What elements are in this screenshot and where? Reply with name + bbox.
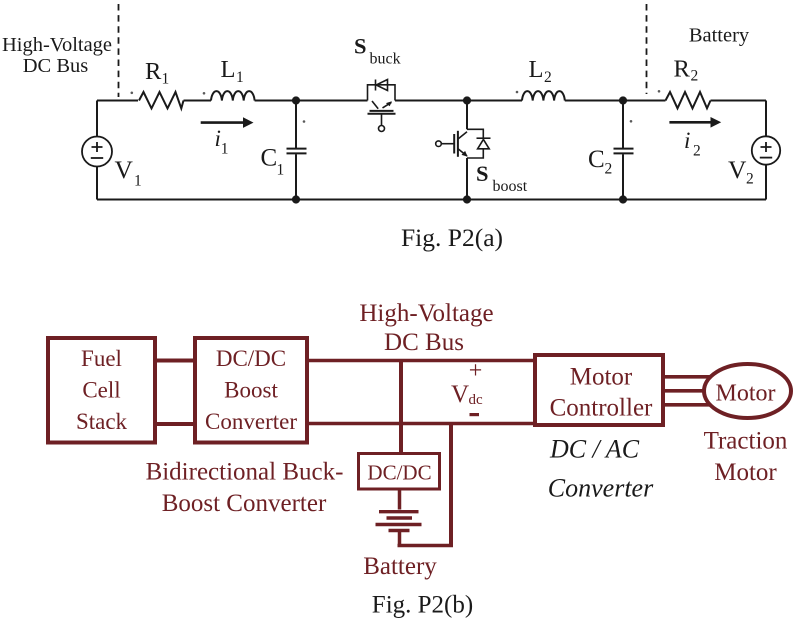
svg-text:V: V xyxy=(115,155,134,184)
svg-text:Battery: Battery xyxy=(689,25,750,47)
label S_boost xyxy=(476,161,528,195)
block Fuel Cell Stack xyxy=(48,338,155,443)
svg-text:boost: boost xyxy=(493,178,528,195)
svg-text:Converter: Converter xyxy=(548,474,654,503)
svg-text:2: 2 xyxy=(693,143,701,160)
svg-text:Cell: Cell xyxy=(82,378,120,403)
label minus xyxy=(470,413,480,416)
label V2 xyxy=(728,155,754,188)
svg-text:Converter: Converter xyxy=(205,409,297,434)
wire DC bus top xyxy=(305,359,537,363)
node C1 top xyxy=(292,96,300,104)
wire S_boost branch xyxy=(466,101,468,200)
battery symbol xyxy=(376,512,422,531)
caption Fig. P2(b) xyxy=(372,592,473,619)
svg-text:DC/DC: DC/DC xyxy=(216,346,286,371)
node C2 bottom xyxy=(619,195,627,203)
label Traction Motor xyxy=(704,428,788,487)
label High-Voltage DC Bus (fig a) xyxy=(2,34,112,77)
svg-text:R: R xyxy=(674,56,691,83)
block DC/DC Boost Converter xyxy=(195,338,307,443)
label L1 xyxy=(221,56,244,86)
svg-text:1: 1 xyxy=(221,141,229,158)
svg-text:C: C xyxy=(261,145,278,172)
capacitor C2 xyxy=(614,149,634,154)
svg-text:High-Voltage: High-Voltage xyxy=(359,300,493,327)
dashed bus boundary left xyxy=(118,4,120,97)
wire C2 branch xyxy=(622,101,624,200)
svg-text:1: 1 xyxy=(277,162,285,179)
label R1 xyxy=(145,58,169,88)
svg-text:Motor: Motor xyxy=(570,364,633,391)
svg-text:Stack: Stack xyxy=(76,409,128,434)
wire phase C xyxy=(665,403,711,407)
dashed bus boundary right xyxy=(646,4,648,94)
svg-text:Battery: Battery xyxy=(363,553,437,580)
svg-text:R: R xyxy=(145,58,162,85)
label V1 xyxy=(115,155,142,189)
svg-text:Boost: Boost xyxy=(224,378,278,403)
resistor R2 xyxy=(666,92,711,108)
svg-text:Controller: Controller xyxy=(550,395,653,422)
svg-text:Fuel: Fuel xyxy=(81,346,122,371)
svg-text:S: S xyxy=(476,161,489,186)
wire battery stem bottom xyxy=(398,532,402,547)
svg-text:Bidirectional Buck-: Bidirectional Buck- xyxy=(146,459,344,486)
svg-text:DC/DC: DC/DC xyxy=(367,461,431,485)
wire DC/DC to battery xyxy=(398,488,402,510)
label Battery (fig a) xyxy=(689,25,750,47)
inductor L1 xyxy=(211,91,255,100)
svg-text:1: 1 xyxy=(236,69,244,86)
wire top rail segments xyxy=(97,100,766,102)
caption Fig. P2(a) xyxy=(401,223,503,252)
wire right rail xyxy=(765,101,767,200)
label Vdc xyxy=(451,381,483,408)
wire fuel-cell to boost lower xyxy=(153,422,197,426)
label Battery (fig b) xyxy=(363,553,437,580)
svg-text:L: L xyxy=(529,56,544,83)
svg-text:2: 2 xyxy=(691,68,699,85)
svg-text:C: C xyxy=(588,146,605,173)
svg-text:1: 1 xyxy=(134,172,142,189)
node S_boost bottom xyxy=(463,195,471,203)
wire DC bus bottom xyxy=(305,422,537,426)
label S_buck xyxy=(354,34,401,68)
svg-text:i: i xyxy=(684,128,690,153)
voltage source V1 xyxy=(82,137,112,167)
label C1 xyxy=(261,145,285,179)
label L2 xyxy=(529,56,552,86)
svg-text:V: V xyxy=(728,155,747,184)
switch S_buck IGBT with diode xyxy=(368,80,396,132)
svg-text:+: + xyxy=(469,358,483,384)
svg-text:Motor: Motor xyxy=(716,381,776,407)
svg-text:dc: dc xyxy=(469,392,484,408)
switch S_boost IGBT with diode xyxy=(436,129,491,158)
wire bottom rail xyxy=(97,199,766,201)
voltage source V2 xyxy=(752,136,780,164)
resistor R1 xyxy=(139,92,184,108)
svg-text:1: 1 xyxy=(162,71,170,88)
label DC / AC Converter xyxy=(548,435,654,503)
construction dots xyxy=(131,90,661,123)
node S_boost top xyxy=(463,96,471,104)
svg-text:High-Voltage: High-Voltage xyxy=(2,34,112,56)
svg-text:2: 2 xyxy=(605,161,613,178)
wire C1 branch xyxy=(295,101,297,200)
wire phase A xyxy=(665,375,711,379)
svg-text:2: 2 xyxy=(544,69,552,86)
capacitor C1 xyxy=(287,149,307,154)
block Motor Controller xyxy=(535,355,663,425)
block Motor (ellipse) xyxy=(704,364,791,418)
block DC/DC (battery converter) xyxy=(359,454,440,490)
label i1 xyxy=(215,126,229,157)
svg-text:S: S xyxy=(354,34,367,59)
label High-Voltage DC Bus (fig b) xyxy=(359,300,493,356)
wire bus drop to DC/DC xyxy=(399,359,403,455)
svg-text:V: V xyxy=(451,381,469,408)
svg-text:buck: buck xyxy=(370,51,401,68)
wire battery bottom xyxy=(398,544,454,548)
node C1 bottom xyxy=(292,195,300,203)
label plus xyxy=(469,358,483,384)
svg-text:DC / AC: DC / AC xyxy=(549,435,640,464)
label C2 xyxy=(588,146,612,178)
svg-text:Fig. P2(a): Fig. P2(a) xyxy=(401,223,503,252)
svg-text:L: L xyxy=(221,56,236,83)
current arrow i1 xyxy=(201,117,254,128)
inductor L2 xyxy=(522,91,565,100)
svg-text:Traction: Traction xyxy=(704,428,788,455)
wire left rail xyxy=(96,101,98,200)
wire fuel-cell to boost upper xyxy=(153,359,197,363)
svg-text:2: 2 xyxy=(746,171,754,188)
svg-text:Fig. P2(b): Fig. P2(b) xyxy=(372,592,473,619)
svg-text:DC Bus: DC Bus xyxy=(23,55,89,77)
label R2 xyxy=(674,56,699,85)
label i2 xyxy=(684,128,701,160)
svg-text:DC Bus: DC Bus xyxy=(384,329,464,356)
svg-text:Motor: Motor xyxy=(714,459,777,486)
label Bidirectional Buck-Boost Converter xyxy=(146,459,344,518)
wire battery right branch xyxy=(449,424,453,546)
current arrow i2 xyxy=(669,117,721,128)
wire phase B xyxy=(665,389,705,393)
node C2 top xyxy=(619,96,627,104)
svg-text:Boost Converter: Boost Converter xyxy=(162,490,327,517)
